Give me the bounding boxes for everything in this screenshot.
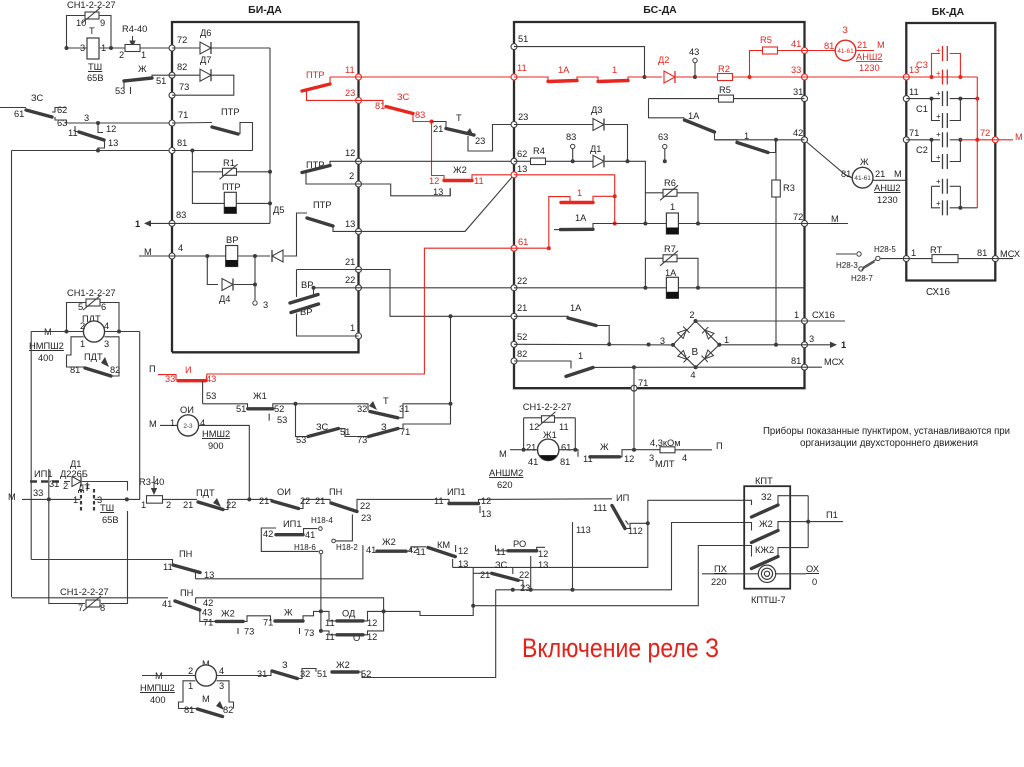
svg-text:1: 1	[73, 495, 78, 505]
svg-text:82: 82	[517, 349, 527, 359]
svg-text:71: 71	[263, 618, 273, 628]
svg-text:65В: 65В	[87, 73, 104, 83]
svg-text:7: 7	[78, 603, 83, 613]
terminal 83 БИ-ДА	[169, 220, 175, 226]
svg-text:13: 13	[458, 559, 468, 569]
contact ПДТ 81-82 (device lower)	[67, 337, 86, 367]
wire ПН-23 to Н18-2	[336, 515, 353, 541]
terminal 41 БС-ДА red	[802, 48, 808, 54]
svg-text:ОИ: ОИ	[180, 405, 194, 415]
terminal 23 БИ-ДА red	[356, 97, 362, 103]
svg-text:13: 13	[517, 164, 527, 174]
svg-text:ПДТ: ПДТ	[84, 352, 103, 362]
svg-text:21: 21	[259, 496, 269, 506]
wire ПН-42 rail	[196, 598, 384, 612]
svg-text:11: 11	[68, 128, 78, 138]
svg-text:R3-40: R3-40	[139, 477, 164, 487]
svg-text:R4: R4	[533, 146, 545, 156]
svg-text:Н28-3: Н28-3	[836, 261, 858, 270]
svg-text:33: 33	[791, 65, 801, 75]
svg-text:R7: R7	[664, 244, 676, 254]
terminal 71 БС-ДА bottom	[631, 385, 637, 391]
svg-text:1А: 1А	[688, 111, 700, 121]
svg-text:2: 2	[63, 481, 68, 491]
terminal 72 БС-ДА	[802, 221, 808, 227]
svg-text:ИП: ИП	[616, 493, 629, 503]
svg-text:Ж2: Ж2	[336, 660, 350, 670]
resistor R5 red (top)	[750, 51, 764, 78]
svg-text:21: 21	[517, 303, 527, 313]
svg-text:1: 1	[170, 418, 175, 428]
svg-text:БС-ДА: БС-ДА	[643, 4, 677, 16]
wire М rail to T pin3	[67, 47, 88, 49]
svg-text:ПТР: ПТР	[306, 70, 325, 80]
svg-text:11: 11	[345, 65, 355, 75]
svg-text:11: 11	[909, 87, 919, 97]
svg-text:12: 12	[481, 496, 491, 506]
svg-text:+: +	[936, 177, 941, 186]
svg-text:БИ-ДА: БИ-ДА	[248, 4, 282, 16]
wire 62 row to R6 loop	[514, 160, 593, 162]
diode Д4 parallel loop	[207, 256, 218, 285]
wire 21 row to net down	[359, 270, 451, 317]
svg-text:1: 1	[911, 248, 916, 258]
terminal 4 БИ-ДА	[169, 253, 175, 259]
wire red vertical to Ж2 red contact	[432, 122, 445, 181]
svg-text:400: 400	[150, 695, 166, 705]
svg-text:11: 11	[434, 496, 444, 506]
svg-text:З: З	[282, 660, 288, 670]
svg-text:22: 22	[300, 496, 310, 506]
svg-text:1: 1	[80, 339, 85, 349]
svg-text:13: 13	[345, 219, 355, 229]
svg-text:4: 4	[200, 418, 205, 428]
wire 13 row with diagonal to БС-ДА 13	[359, 175, 515, 232]
svg-text:81: 81	[841, 169, 851, 179]
wire 12 row to БС-ДА 62	[359, 160, 515, 162]
wire to ОД group	[303, 611, 321, 621]
wire 42 row	[715, 139, 805, 141]
svg-text:21: 21	[433, 124, 443, 134]
terminal 1 БС-ДА	[802, 318, 808, 324]
contact Ж2 71-73 (bottom chain)	[200, 610, 216, 621]
svg-text:СХ16: СХ16	[812, 310, 835, 320]
svg-text:3: 3	[104, 339, 109, 349]
svg-text:Н18-2: Н18-2	[336, 543, 358, 552]
wire ПДТ-4 down (x=140)	[139, 332, 141, 500]
svg-text:НМПШ2: НМПШ2	[140, 683, 175, 693]
svg-text:12: 12	[345, 148, 355, 158]
svg-text:МСХ: МСХ	[1000, 249, 1020, 259]
terminal 72 БК-ДА red	[992, 137, 998, 143]
svg-text:П: П	[716, 441, 723, 451]
wire 53 row to Ж1 contact	[203, 404, 248, 409]
svg-text:М: М	[877, 40, 885, 50]
svg-text:11: 11	[163, 562, 173, 572]
svg-text:13: 13	[481, 509, 491, 519]
wire 71 drop	[633, 367, 635, 388]
svg-text:31: 31	[793, 87, 803, 97]
test point Н18-6	[319, 550, 323, 554]
terminal 22 БИ-ДА	[356, 285, 362, 291]
svg-text:11: 11	[416, 547, 426, 557]
terminal 13 БИ-ДА	[356, 228, 362, 234]
svg-text:R2: R2	[718, 64, 730, 74]
terminal 3 БС-ДА	[802, 342, 808, 348]
svg-text:71: 71	[203, 618, 213, 628]
svg-text:12: 12	[367, 618, 377, 628]
svg-text:R4-40: R4-40	[122, 24, 147, 34]
svg-text:НМШ2: НМШ2	[202, 429, 230, 439]
svg-text:1: 1	[841, 340, 846, 350]
svg-text:53: 53	[296, 435, 306, 445]
terminal 13 БК-ДА red	[903, 74, 909, 80]
svg-text:М: М	[202, 694, 210, 704]
wire 23 row down-left to З chain	[475, 590, 496, 678]
contact ПН 41-42/43	[12, 597, 169, 599]
contact М 81-82 (device lower)	[179, 681, 198, 709]
svg-text:13: 13	[108, 138, 118, 148]
svg-text:111: 111	[593, 503, 607, 513]
svg-text:Д1: Д1	[590, 144, 601, 154]
svg-text:ПТР: ПТР	[313, 200, 332, 210]
svg-text:53: 53	[277, 415, 287, 425]
svg-text:2: 2	[349, 171, 354, 181]
svg-text:Д6: Д6	[200, 28, 211, 38]
terminal 11 БК-ДА	[903, 96, 909, 102]
terminal 33 БС-ДА red	[802, 74, 808, 80]
svg-text:ПН: ПН	[179, 549, 192, 559]
svg-text:2: 2	[80, 321, 85, 331]
meter Ж АНШ2 1230	[806, 142, 852, 178]
svg-text:ТШ: ТШ	[88, 62, 102, 72]
svg-text:73: 73	[179, 82, 189, 92]
svg-text:41: 41	[366, 545, 376, 555]
wire ИП 112 up to З2 row of КПТ	[648, 500, 744, 523]
svg-text:11: 11	[517, 63, 527, 73]
svg-text:1А: 1А	[665, 268, 677, 278]
svg-text:1: 1	[670, 202, 675, 212]
svg-text:51: 51	[156, 76, 166, 86]
svg-text:Ж1: Ж1	[253, 391, 267, 401]
svg-text:8: 8	[100, 603, 105, 613]
svg-text:65В: 65В	[102, 515, 119, 525]
svg-text:22: 22	[345, 275, 355, 285]
svg-text:ЗС: ЗС	[397, 92, 410, 102]
svg-text:41-61: 41-61	[837, 48, 854, 55]
wire 113 drop	[572, 522, 574, 590]
stub 83 on 62 row	[571, 159, 575, 163]
svg-text:1А: 1А	[558, 65, 570, 75]
svg-text:Ж2: Ж2	[453, 165, 467, 175]
svg-text:1: 1	[350, 323, 355, 333]
svg-text:ОД: ОД	[342, 609, 356, 619]
svg-text:ЗС: ЗС	[31, 93, 44, 103]
svg-text:62: 62	[517, 149, 527, 159]
terminal 73 БИ-ДА	[169, 92, 175, 98]
jumper Н28-3 Н28-5 Н28-7	[836, 253, 856, 255]
svg-text:113: 113	[576, 525, 591, 535]
wire Н18-6 down to ОД group	[320, 554, 322, 631]
svg-text:+: +	[936, 89, 941, 98]
svg-text:АНШ2: АНШ2	[856, 52, 883, 62]
svg-text:П1: П1	[826, 510, 838, 520]
svg-text:Н18-4: Н18-4	[311, 516, 333, 525]
svg-text:1: 1	[724, 335, 729, 345]
meter З АНШ2 1230 red	[805, 50, 836, 52]
svg-text:Включение реле З: Включение реле З	[522, 633, 719, 663]
svg-text:+: +	[936, 112, 941, 121]
contact З 73-71 (chain)	[339, 429, 369, 437]
svg-text:4: 4	[104, 321, 109, 331]
terminal 81 БС-ДА	[802, 364, 808, 370]
svg-text:0: 0	[812, 577, 817, 587]
svg-text:ИП1: ИП1	[283, 519, 302, 529]
svg-text:2: 2	[188, 666, 193, 676]
wire red vertical right column	[976, 77, 978, 208]
svg-text:83: 83	[176, 210, 186, 220]
svg-text:Ж: Ж	[860, 157, 869, 167]
test point Н18-2	[332, 539, 336, 543]
svg-text:12: 12	[624, 454, 634, 464]
svg-text:В: В	[692, 347, 699, 358]
svg-text:21: 21	[857, 40, 867, 50]
svg-text:+: +	[936, 46, 941, 55]
wire 81 row with R1 branch	[172, 150, 253, 152]
svg-text:З2: З2	[761, 492, 772, 502]
svg-text:Приборы показанные пунктиром,: Приборы показанные пунктиром, устанавлив…	[763, 425, 1010, 437]
svg-text:400: 400	[38, 353, 54, 363]
terminal 22 БС-ДА	[511, 285, 517, 291]
svg-text:13: 13	[538, 560, 548, 570]
svg-text:R5: R5	[719, 85, 731, 95]
contact ПН 11-13	[31, 560, 172, 565]
svg-text:51: 51	[317, 669, 327, 679]
wire bridge 2 to terminal 1 (СХ16)	[696, 320, 805, 322]
svg-text:51: 51	[236, 404, 246, 414]
svg-text:52: 52	[274, 404, 284, 414]
svg-text:83: 83	[415, 110, 425, 120]
svg-text:RT: RT	[930, 245, 943, 255]
wire 52 row	[514, 343, 673, 346]
wire loop СН1 to T	[67, 16, 86, 49]
svg-text:Т: Т	[89, 26, 95, 36]
svg-text:Д3: Д3	[591, 105, 602, 115]
terminal 21 БИ-ДА	[356, 267, 362, 273]
svg-text:72: 72	[177, 35, 187, 45]
wire R4-40 to БИ-ДА terminal 72	[140, 47, 172, 49]
svg-text:МЛТ: МЛТ	[655, 459, 675, 469]
svg-text:12: 12	[458, 546, 468, 556]
svg-text:+: +	[936, 199, 941, 208]
svg-text:ПТР: ПТР	[222, 182, 241, 192]
svg-text:1: 1	[141, 50, 146, 60]
svg-text:12: 12	[538, 549, 548, 559]
wire red 61 net	[514, 247, 549, 249]
svg-text:1: 1	[612, 65, 617, 75]
svg-text:6: 6	[101, 302, 106, 312]
terminal 62 БС-ДА	[511, 158, 517, 164]
svg-text:1А: 1А	[570, 303, 582, 313]
svg-text:Д2: Д2	[658, 55, 669, 65]
terminal 81 БИ-ДА	[169, 148, 175, 154]
wire T pin1 to R4-40	[99, 47, 126, 49]
svg-text:21: 21	[480, 570, 490, 580]
svg-text:12: 12	[106, 124, 116, 134]
svg-text:21: 21	[875, 169, 885, 179]
svg-text:ЗС: ЗС	[495, 560, 508, 570]
svg-text:2-3: 2-3	[183, 423, 193, 430]
svg-text:63: 63	[658, 132, 668, 142]
wire red 72 row	[960, 139, 995, 141]
wire bridge 1 to terminal 3 with arrow 1	[719, 344, 804, 346]
terminal 82 БС-ДА	[511, 358, 517, 364]
svg-text:4: 4	[682, 453, 687, 463]
svg-text:53: 53	[206, 391, 216, 401]
svg-text:3: 3	[219, 681, 224, 691]
svg-text:81: 81	[824, 41, 834, 51]
svg-text:32: 32	[357, 404, 367, 414]
wire red 11 row to БС-ДА	[359, 76, 515, 78]
svg-text:П: П	[149, 364, 156, 374]
svg-text:Д7: Д7	[200, 55, 211, 65]
svg-text:ПДТ: ПДТ	[196, 488, 215, 498]
terminal 81 БК-ДА	[992, 256, 998, 262]
svg-text:БК-ДА: БК-ДА	[932, 6, 965, 18]
svg-text:41: 41	[528, 457, 538, 467]
terminal 51 БС-ДА	[511, 44, 517, 50]
svg-text:ИП1: ИП1	[34, 469, 53, 479]
svg-text:организации двухстороннего дви: организации двухстороннего движения	[800, 438, 978, 449]
wire ЗС-23 row	[496, 589, 531, 591]
svg-text:71: 71	[909, 128, 919, 138]
wire М rail down (x=31)	[30, 332, 32, 560]
svg-text:2: 2	[689, 310, 694, 320]
lamp symbol ПХ-ОХ	[702, 573, 758, 575]
svg-text:Н28-5: Н28-5	[874, 245, 896, 254]
svg-text:1: 1	[188, 681, 193, 691]
svg-text:+: +	[936, 153, 941, 162]
svg-text:Т: Т	[456, 113, 462, 123]
svg-text:81: 81	[184, 705, 194, 715]
svg-text:81: 81	[977, 248, 987, 258]
svg-text:З: З	[842, 25, 848, 35]
svg-text:81: 81	[560, 457, 570, 467]
svg-text:АНШМ2: АНШМ2	[489, 468, 523, 478]
svg-text:21: 21	[183, 500, 193, 510]
svg-text:12: 12	[367, 632, 377, 642]
svg-text:Ж2: Ж2	[221, 609, 235, 619]
wire 72 row М	[698, 223, 848, 225]
svg-text:11: 11	[559, 422, 569, 432]
svg-text:31: 31	[49, 479, 59, 489]
svg-text:ПН: ПН	[329, 487, 342, 497]
svg-text:Д1: Д1	[70, 459, 81, 469]
svg-text:С2: С2	[916, 145, 928, 155]
wire row to Т contact	[296, 404, 369, 411]
svg-text:41: 41	[162, 599, 172, 609]
terminal 2 БИ-ДА	[356, 181, 362, 187]
svg-text:21: 21	[345, 257, 355, 267]
svg-text:1: 1	[794, 310, 799, 320]
svg-text:R5: R5	[760, 35, 772, 45]
svg-text:43: 43	[689, 47, 699, 57]
svg-text:R6: R6	[664, 178, 676, 188]
stub 63 on 62 row	[663, 159, 667, 163]
svg-text:ТШ: ТШ	[100, 503, 114, 513]
svg-text:81: 81	[70, 365, 80, 375]
svg-text:1230: 1230	[859, 63, 880, 73]
terminal 11 БС-ДА red	[511, 74, 517, 80]
svg-text:53: 53	[115, 86, 125, 96]
wire РО/КЖ2 row	[473, 546, 744, 606]
terminal 12 БИ-ДА	[356, 158, 362, 164]
svg-text:21: 21	[315, 496, 325, 506]
svg-text:22: 22	[360, 501, 370, 511]
svg-text:ПХ: ПХ	[714, 564, 727, 574]
svg-text:2: 2	[119, 50, 124, 60]
svg-text:82: 82	[223, 705, 233, 715]
svg-text:22: 22	[519, 570, 529, 580]
terminal 3 stub	[254, 285, 256, 301]
svg-text:1А: 1А	[575, 213, 587, 223]
resistor 4,3кОм МЛТ	[634, 449, 660, 451]
svg-text:КПТ: КПТ	[755, 476, 773, 486]
svg-text:41: 41	[305, 530, 315, 540]
svg-text:Ж: Ж	[284, 608, 293, 618]
svg-text:61: 61	[518, 237, 528, 247]
terminal 23 БС-ДА	[511, 122, 517, 128]
svg-text:81: 81	[375, 101, 385, 111]
svg-text:43: 43	[206, 374, 216, 384]
svg-text:83: 83	[566, 132, 576, 142]
svg-text:81: 81	[791, 356, 801, 366]
terminal 82 БИ-ДА	[169, 72, 175, 78]
svg-text:КЖ2: КЖ2	[755, 545, 774, 555]
wire 53 drop from И	[202, 381, 204, 404]
svg-text:620: 620	[497, 480, 513, 490]
contact Ж 11-12	[559, 450, 578, 457]
svg-text:52: 52	[517, 332, 527, 342]
svg-text:4: 4	[690, 370, 695, 380]
svg-text:61: 61	[561, 443, 571, 453]
svg-text:1: 1	[135, 219, 140, 229]
wire 83 row with left arrow 1	[150, 222, 270, 224]
svg-text:СН1-2-2-27: СН1-2-2-27	[67, 0, 116, 10]
svg-text:42: 42	[263, 529, 273, 539]
wire П1 net	[807, 496, 809, 548]
terminal 21 БС-ДА	[511, 313, 517, 319]
svg-text:2: 2	[166, 500, 171, 510]
svg-text:3: 3	[263, 300, 268, 310]
svg-text:33: 33	[33, 488, 43, 498]
svg-text:61: 61	[14, 109, 24, 119]
svg-text:71: 71	[178, 110, 188, 120]
svg-text:МСХ: МСХ	[824, 357, 844, 367]
terminal 11 БИ-ДА red	[356, 74, 362, 80]
svg-text:КМ: КМ	[437, 540, 450, 550]
terminal 1 БК-ДА	[903, 256, 909, 262]
svg-text:1: 1	[141, 500, 146, 510]
svg-text:ОИ: ОИ	[277, 487, 291, 497]
svg-text:10: 10	[76, 18, 86, 28]
svg-text:R3: R3	[783, 183, 795, 193]
wire ИП 112 down then left (КМ row)	[453, 523, 648, 567]
svg-text:23: 23	[361, 513, 371, 523]
svg-text:31: 31	[399, 404, 409, 414]
svg-text:81: 81	[177, 138, 187, 148]
svg-text:3: 3	[649, 453, 654, 463]
